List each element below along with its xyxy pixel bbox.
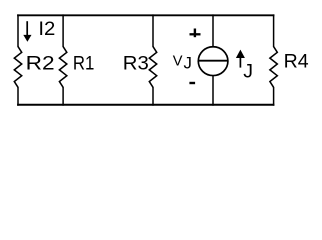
wire top rail (17, 14, 274, 16)
svg-text:R4: R4 (284, 52, 309, 73)
svg-text:R3: R3 (123, 53, 149, 74)
wire R2 top lead (17, 14, 19, 47)
wire current source bottom lead (212, 76, 214, 106)
wire R4 bottom lead (273, 87, 275, 106)
current source J (198, 47, 228, 76)
wire R3 bottom lead (152, 87, 154, 106)
svg-text:I2: I2 (38, 19, 55, 40)
svg-text:J: J (184, 53, 192, 72)
svg-text:R1: R1 (73, 53, 95, 74)
svg-text:J: J (243, 61, 253, 83)
label - polarity (189, 82, 195, 84)
resistor R4 (270, 47, 277, 88)
wire R1 top lead (62, 14, 64, 47)
wire R4 top lead (273, 14, 275, 47)
wire current source top lead (212, 14, 214, 46)
current direction arrow J (236, 50, 245, 68)
resistor R3 (149, 47, 156, 88)
wire R2 bottom lead (17, 87, 19, 106)
wire R3 top lead (152, 14, 154, 47)
wire bottom rail (17, 104, 274, 106)
svg-text:R2: R2 (26, 53, 55, 74)
resistor R2 (14, 47, 21, 88)
label VJ (173, 53, 192, 72)
label + polarity (190, 29, 201, 38)
resistor R1 (59, 47, 66, 88)
wire R1 bottom lead (62, 87, 64, 106)
current arrow I2 (23, 21, 31, 42)
svg-text:V: V (173, 54, 183, 70)
